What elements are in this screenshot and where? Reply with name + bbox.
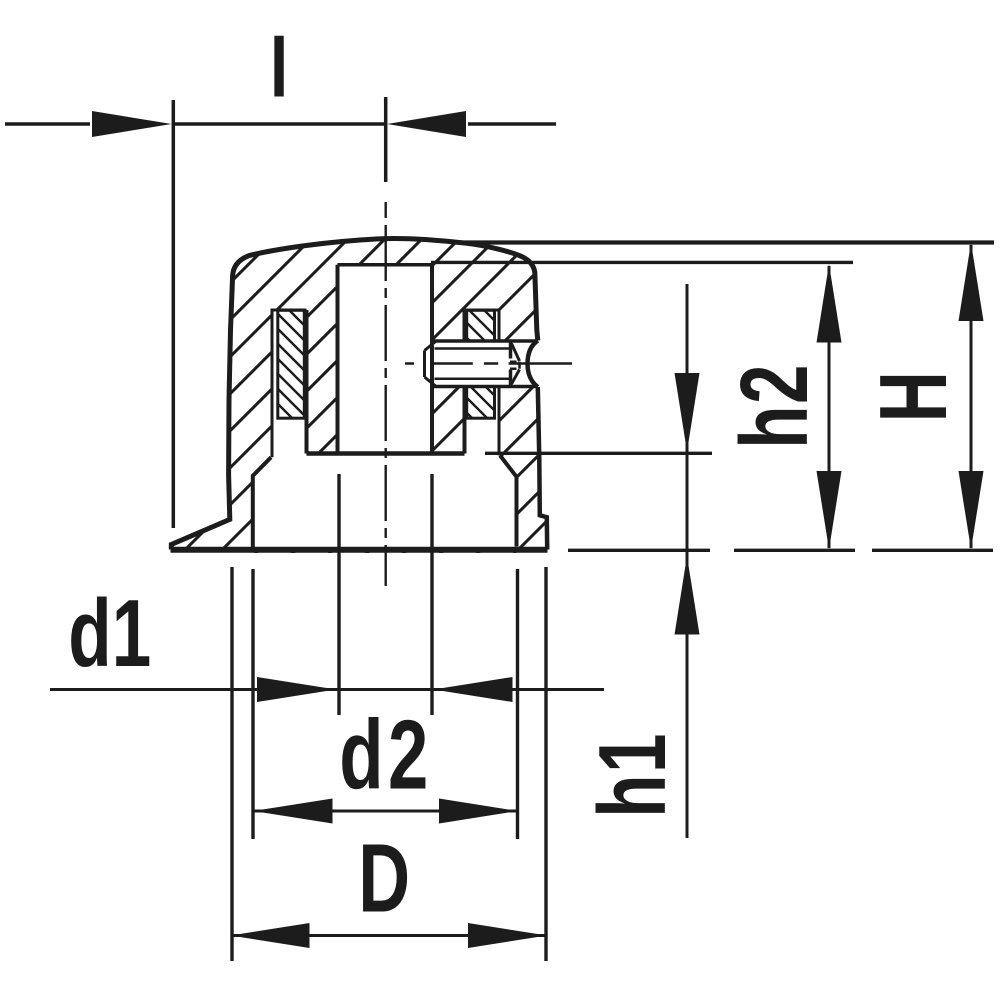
d1 dimension line: [50, 688, 604, 691]
arrowheads: [92, 111, 984, 948]
svg-text:D: D: [358, 825, 410, 933]
left pocket: [272, 310, 307, 457]
section hatching of knob body: [0, 225, 917, 556]
I right arrow: [387, 111, 466, 137]
D dimension line: [231, 934, 548, 937]
svg-text:d2: d2: [339, 701, 432, 810]
I left arrow: [92, 111, 172, 137]
I dimension line: [5, 122, 556, 126]
d1 arrows (outside pair): [257, 677, 336, 702]
screw tip: [425, 342, 436, 387]
svg-text:h2: h2: [721, 363, 828, 449]
h1 extension (hub face level): [485, 452, 712, 455]
vertical extension lines below: [232, 474, 546, 961]
screw hole thread crest lines: [433, 341, 537, 387]
centerline vertical (axis): [386, 202, 572, 586]
left bushing: [278, 310, 305, 418]
bottom face: [171, 547, 548, 553]
screw head end + slot: [509, 342, 513, 386]
H extension top: [460, 240, 994, 244]
h2 dimension line: [828, 266, 831, 548]
knob outer profile: [171, 238, 538, 549]
H dimension line: [970, 245, 973, 548]
centerline horizontal (screw axis): [405, 362, 572, 364]
H arrows: [959, 243, 984, 322]
svg-text:d1: d1: [68, 580, 151, 687]
hub bottom face: [307, 451, 465, 456]
left step + counterbore wall: [253, 457, 271, 548]
d2 dimension line: [254, 810, 519, 813]
h2 arrows: [817, 264, 842, 343]
h1 dimension line: [686, 284, 689, 838]
right pocket (split around screw hole): [465, 310, 500, 455]
h1 down arrow + up arrow: [675, 373, 700, 452]
d2 arrows (inside pair): [254, 799, 333, 824]
svg-text:h1: h1: [579, 732, 686, 818]
svg-text:H: H: [860, 371, 967, 422]
I extension lines: [172, 100, 176, 528]
screw root lines: [435, 349, 512, 379]
right bushing upper / lower: [467, 310, 495, 341]
side recess concave dip: [528, 341, 538, 388]
svg-text:I: I: [270, 18, 288, 116]
h2 extension top: [431, 261, 853, 264]
bore (shaft hole): [338, 263, 433, 267]
bushing right chevron hatch: [359, 305, 599, 425]
right step + counterbore wall: [500, 455, 517, 546]
D arrows: [231, 923, 310, 948]
bushing left chevron hatch: [164, 305, 419, 425]
bottom extension (knob bottom level): [568, 549, 993, 552]
